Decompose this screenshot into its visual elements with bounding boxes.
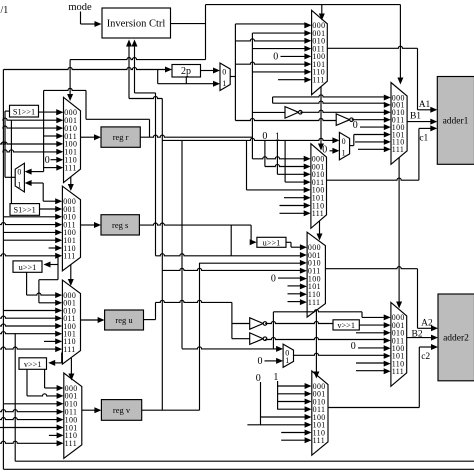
svg-text:111: 111 [63,252,75,261]
svg-text:Inversion Ctrl: Inversion Ctrl [107,19,166,30]
svg-text:0: 0 [271,273,276,284]
svg-text:c2: c2 [421,352,430,362]
svg-text:B2: B2 [412,330,423,340]
svg-text:111: 111 [308,298,320,307]
svg-text:1: 1 [222,79,226,88]
svg-text:u>>1: u>>1 [263,238,281,247]
svg-text:111: 111 [63,345,75,354]
svg-text:1: 1 [17,181,21,190]
svg-text:0: 0 [351,341,356,352]
svg-text:1: 1 [342,148,346,157]
svg-text:0: 0 [273,52,278,63]
svg-text:reg r: reg r [113,132,129,142]
svg-text:reg v: reg v [113,405,131,415]
svg-text:S1>>1: S1>>1 [13,107,35,116]
svg-text:111: 111 [65,439,77,448]
svg-text:mode: mode [68,2,92,13]
svg-text:u>>1: u>>1 [19,263,37,272]
svg-text:0: 0 [258,356,263,367]
svg-text:/1: /1 [1,5,9,16]
svg-text:111: 111 [312,209,324,218]
svg-text:2p: 2p [181,66,191,77]
svg-text:111: 111 [392,145,404,154]
svg-text:adder2: adder2 [443,334,469,344]
svg-text:A1: A1 [419,100,431,110]
svg-text:0: 0 [17,168,21,177]
svg-text:111: 111 [312,76,324,85]
svg-text:adder1: adder1 [443,117,469,127]
svg-text:0: 0 [322,145,327,156]
svg-text:c1: c1 [419,134,428,144]
svg-text:111: 111 [313,436,325,445]
svg-text:111: 111 [392,367,404,376]
svg-text:0: 0 [45,155,50,166]
svg-text:B1: B1 [410,112,421,122]
svg-text:reg s: reg s [112,220,128,230]
svg-text:1: 1 [285,356,289,365]
svg-text:v>>1: v>>1 [24,360,42,369]
svg-text:reg u: reg u [115,315,133,325]
svg-text:A2: A2 [421,319,433,329]
svg-text:S1>>1: S1>>1 [14,206,36,215]
svg-text:0: 0 [353,120,358,131]
svg-text:111: 111 [64,163,76,172]
svg-text:v>>1: v>>1 [337,321,355,330]
svg-text:0: 0 [222,68,226,77]
svg-text:0: 0 [342,137,346,146]
